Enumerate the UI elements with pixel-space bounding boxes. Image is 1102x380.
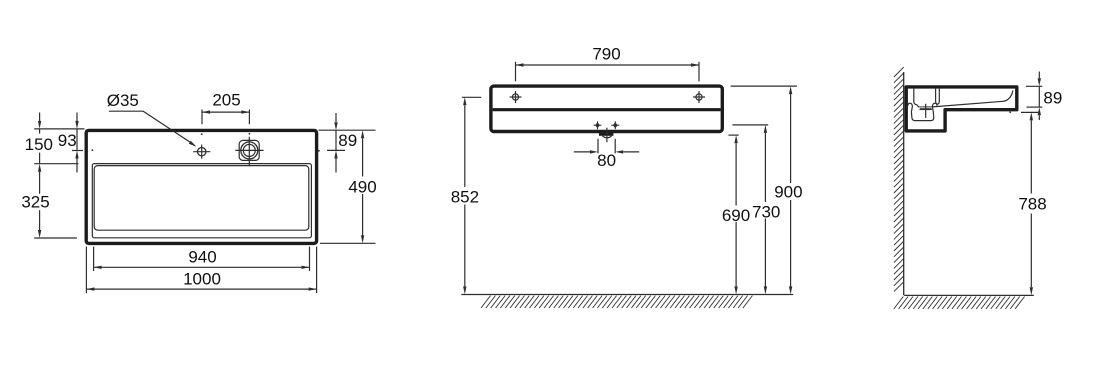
side view: floor hatching — [894, 297, 1025, 309]
svg-text:690: 690 — [722, 206, 750, 225]
svg-text:93: 93 — [58, 131, 77, 150]
front view: right mounting hole cross — [693, 91, 705, 103]
svg-text:Ø35: Ø35 — [107, 91, 139, 110]
side view: dimension 788 (floor to underside) — [1018, 112, 1046, 295]
front view: drain outlet — [599, 128, 613, 143]
svg-text:325: 325 — [21, 193, 49, 212]
svg-text:150: 150 — [25, 135, 53, 154]
top view: dimension 940 (inner width) — [94, 247, 310, 271]
side view: dimension 89 (rim thickness) — [1026, 72, 1062, 121]
top view: dimension 93 (top edge to faucet axis) — [58, 113, 79, 173]
svg-text:900: 900 — [774, 183, 802, 202]
side view: wall line — [903, 72, 905, 295]
svg-text:1000: 1000 — [183, 270, 221, 289]
top view: centerline dots — [92, 133, 320, 152]
svg-text:89: 89 — [338, 131, 357, 150]
svg-text:790: 790 — [592, 45, 620, 64]
top view: dimension 205 (faucet to drain) — [202, 91, 249, 125]
side view: basin profile outline — [906, 87, 1017, 131]
side view: drain flange lines — [919, 107, 933, 110]
front view: dimension 690 (floor to drain outlet) — [722, 135, 750, 294]
svg-text:788: 788 — [1018, 195, 1046, 214]
front view: dimension 900 (floor to top) — [731, 86, 803, 294]
top view: left extension lines — [34, 129, 84, 238]
front view: dimension 730 (floor to fixing points) — [732, 125, 780, 295]
svg-text:730: 730 — [752, 202, 780, 221]
svg-text:89: 89 — [1043, 89, 1062, 108]
front view: floor hatching — [481, 296, 752, 308]
side view: siphon trap outline — [908, 103, 937, 120]
side view: drain center cross — [920, 104, 932, 118]
side view: 788 reference dot — [1009, 111, 1011, 113]
svg-text:490: 490 — [348, 177, 376, 196]
front view: basin body outline — [491, 86, 722, 131]
front view: dimension 852 (floor to mounting holes) — [451, 97, 481, 294]
side view: floor line — [904, 294, 1034, 296]
top view: basin outer rim (plan view) — [86, 130, 316, 243]
side view: wall hatching — [894, 67, 904, 291]
side view: overflow channel — [936, 89, 940, 105]
front view: dimension 80 (drain fixing spacing) — [574, 139, 639, 170]
front view: floor line — [461, 294, 793, 296]
side view: bowl bottom slope line — [932, 90, 1012, 107]
front view: left mounting hole cross — [510, 91, 522, 103]
top view: drain square with concentric circles and center cross — [235, 137, 263, 166]
svg-text:852: 852 — [451, 188, 479, 207]
top view: dimension 89 (top edge to drain axis) — [334, 113, 357, 173]
svg-text:205: 205 — [212, 91, 240, 110]
front view: dimension 790 (mounting hole spacing) — [516, 45, 700, 82]
top view: label O35 with leader arrow to faucet hole — [107, 91, 197, 147]
top view: right extension lines — [319, 130, 376, 243]
top view: faucet hole (O35) with center cross — [193, 145, 210, 159]
top view: dimension 150 (top edge to inner rim) — [25, 113, 53, 164]
top view: dimension 490 (total depth) — [348, 130, 376, 243]
top view: basin bowl bottom edge — [94, 166, 309, 231]
top view: basin inner rim edge — [92, 164, 311, 238]
side view: bowl interior profile left wall — [914, 89, 919, 108]
top view: dimension 325 (inner rim to bottom) — [21, 164, 49, 238]
svg-text:80: 80 — [597, 151, 616, 170]
front view: bottom fixing points — [594, 121, 620, 129]
front view: rim mid line — [493, 108, 721, 111]
svg-text:940: 940 — [188, 248, 216, 267]
top view: dimension 1000 (total width) — [86, 247, 316, 294]
